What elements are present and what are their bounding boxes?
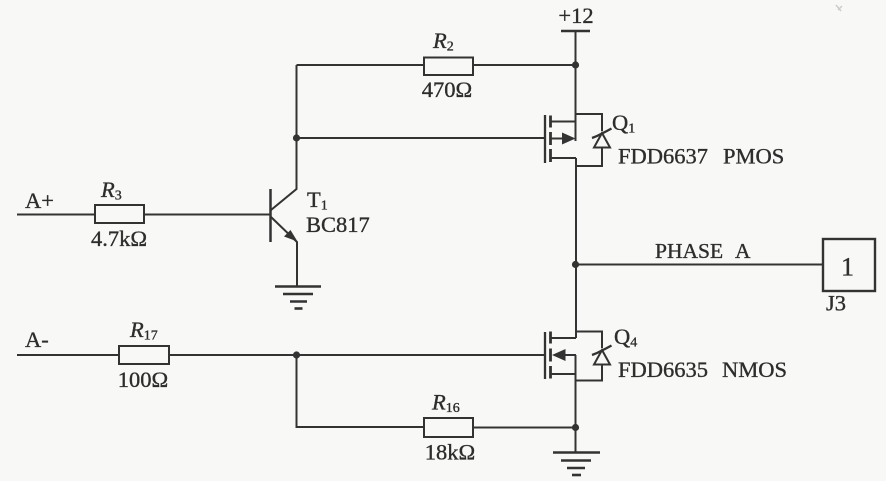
resistor R2 xyxy=(424,58,473,76)
wire Q1 body-diode loop top xyxy=(576,114,603,131)
svg-text:18kΩ: 18kΩ xyxy=(425,440,475,465)
ground (below T1) xyxy=(275,287,321,309)
svg-text:PMOS: PMOS xyxy=(723,144,784,169)
transistor Q4 drain lead (top) xyxy=(551,337,576,339)
wire Q1 drain down to phase node xyxy=(575,158,577,265)
smudge xyxy=(836,5,842,11)
power +12 bar xyxy=(561,30,590,33)
ground (below Q4) xyxy=(553,453,600,476)
wire node to ground xyxy=(575,428,577,453)
svg-text:J3: J3 xyxy=(826,291,846,316)
svg-text:FDD6635: FDD6635 xyxy=(618,357,708,382)
wire R2 to +12 node xyxy=(473,64,575,66)
svg-text:1: 1 xyxy=(841,253,854,282)
transistor T1 base bar xyxy=(269,189,272,242)
svg-text:A: A xyxy=(735,239,751,263)
wire Q4 source vertical xyxy=(575,355,577,428)
svg-text:FDD6637: FDD6637 xyxy=(618,144,708,169)
transistor Q4 body arrow xyxy=(552,349,566,361)
resistor R3 xyxy=(95,205,144,223)
transistor Q1 gate bar xyxy=(544,115,546,163)
diode D1 triangle xyxy=(594,133,610,148)
transistor Q4 gate bar xyxy=(544,332,546,379)
svg-text:NMOS: NMOS xyxy=(722,357,787,382)
wire R16 to source node xyxy=(473,427,576,429)
wire Q4 body-diode loop bottom xyxy=(576,365,603,381)
transistor Q1 drain lead (bottom) xyxy=(551,157,576,159)
resistor R16 xyxy=(424,418,473,437)
node R16 junction dot xyxy=(572,424,579,431)
wire +12 to node xyxy=(575,31,577,65)
transistor Q4 channel bar xyxy=(549,332,552,379)
svg-text:A-: A- xyxy=(25,327,49,352)
svg-text:PHASE: PHASE xyxy=(655,239,723,263)
wire R17 to node xyxy=(169,354,297,356)
transistor T1 emitter xyxy=(271,217,297,286)
svg-text:100Ω: 100Ω xyxy=(118,367,168,392)
connector J3 pin 1 box xyxy=(823,239,875,291)
node +12 junction dot xyxy=(572,61,579,68)
node A (collector junction dot) xyxy=(293,134,300,141)
node R17 junction dot xyxy=(293,351,300,358)
wire Q4 body-diode loop top xyxy=(576,332,603,349)
wire R3 to T1 base xyxy=(144,214,270,216)
transistor Q1 channel bar xyxy=(549,116,552,163)
svg-text:BC817: BC817 xyxy=(306,212,370,237)
diode D4 cathode slash xyxy=(592,346,612,356)
transistor Q4 body lead xyxy=(564,354,576,356)
node PHASE A junction dot xyxy=(572,261,579,268)
diode D4 triangle xyxy=(594,350,610,365)
wire A+ input xyxy=(17,214,95,216)
wire collector top to R2 xyxy=(297,64,425,66)
svg-text:470Ω: 470Ω xyxy=(422,77,472,102)
transistor Q4 source lead (bottom) xyxy=(551,373,576,375)
svg-text:A+: A+ xyxy=(25,188,54,213)
wire Q1 body-diode loop bottom xyxy=(576,148,602,167)
transistor Q1 body arrow xyxy=(562,133,576,145)
svg-text:+12: +12 xyxy=(558,3,593,28)
wire PHASE A to J3 xyxy=(576,264,824,266)
transistor Q1 body lead xyxy=(551,138,564,140)
transistor T1 collector xyxy=(271,65,297,210)
wire A- input xyxy=(17,354,119,356)
wire gate of Q1 from collector node xyxy=(297,137,545,139)
transistor Q1 source lead (top) xyxy=(551,121,576,123)
svg-text:4.7kΩ: 4.7kΩ xyxy=(91,226,147,251)
wire node down to R16 xyxy=(297,355,425,427)
wire node to Q4 gate xyxy=(297,354,545,356)
diode D1 cathode slash xyxy=(592,129,612,139)
wire Q4 drain up to phase node xyxy=(575,265,577,339)
transistor T1 emitter arrow xyxy=(284,230,298,242)
op Q1 source vertical from +12 xyxy=(575,65,577,141)
resistor R17 xyxy=(119,346,169,364)
